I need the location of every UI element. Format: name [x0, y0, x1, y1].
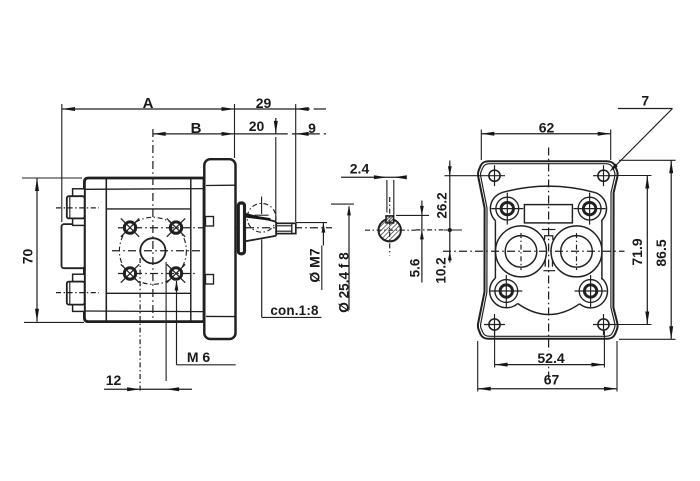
- dimension 26.2 and 10.2 line: [449, 161, 451, 263]
- pilot circle center tick: [255, 214, 269, 216]
- bolt lobe top-left: [490, 192, 502, 221]
- dimension 86.5 line: [670, 160, 672, 339]
- dimension A extension line left: [61, 104, 63, 222]
- key on section: [386, 216, 394, 223]
- section crosshair vertical: [389, 197, 391, 256]
- port bore right circle: [561, 236, 593, 268]
- flange upper bearing tab: [206, 217, 214, 227]
- dimension 70 extension bottom: [24, 321, 84, 323]
- dimension 7 leader: [612, 109, 673, 170]
- port offset centerline x140: [139, 258, 141, 392]
- body inner bottom line: [85, 310, 204, 313]
- inner square bottom line: [106, 292, 191, 294]
- dimension 26.2 extension line: [445, 175, 485, 177]
- bolt circle dash-dot: [119, 217, 186, 284]
- threaded shaft end M7: [276, 223, 296, 233]
- dimension 29 line: [235, 108, 296, 110]
- dimension 67 line: [478, 388, 617, 390]
- corner hole top-right: [598, 170, 609, 181]
- port boss right circle: [551, 226, 602, 277]
- svg-text:7: 7: [641, 93, 649, 109]
- dimension 52.4 label: [533, 351, 569, 364]
- flange plate outline: [478, 161, 618, 339]
- dimension 71.9 extension lines: [612, 175, 652, 177]
- lower boss inner face line: [69, 282, 71, 305]
- axis extension to flange dims: [416, 229, 444, 231]
- main vertical centerline side view: [152, 129, 154, 322]
- dimension 29 label: [252, 95, 276, 108]
- svg-text:5.6: 5.6: [408, 258, 423, 277]
- svg-text:con.1:8: con.1:8: [270, 303, 319, 318]
- dimension 5.6 extension key top: [396, 214, 429, 216]
- extension line thread start: [275, 137, 277, 221]
- center section right joint line: [190, 178, 192, 322]
- svg-text:62: 62: [539, 120, 555, 136]
- taper callout underline: [262, 316, 322, 318]
- svg-text:9: 9: [308, 120, 316, 136]
- flange plate inner chamfer line: [481, 164, 615, 337]
- flange lower bearing tab: [206, 275, 214, 285]
- central gear shaft circle: [140, 238, 165, 263]
- dimension 70 extension top: [22, 177, 82, 179]
- dimension A line: [62, 108, 235, 110]
- taper callout leader: [261, 240, 263, 318]
- bolt lobe top-right: [595, 193, 606, 221]
- corner hole top-left: [489, 170, 500, 181]
- left cover joint line: [105, 178, 107, 322]
- svg-text:29: 29: [256, 95, 272, 111]
- port bore left circle: [505, 236, 537, 268]
- svg-text:86.5: 86.5: [653, 239, 669, 266]
- tapered drive shaft: [245, 214, 277, 242]
- lower port boss: [67, 282, 85, 305]
- svg-text:52.4: 52.4: [537, 350, 564, 366]
- dimension 2.4 line: [341, 176, 404, 178]
- junction notch top: [545, 236, 553, 240]
- dimension 70 line: [36, 178, 38, 322]
- lower gear center tick: [543, 270, 555, 272]
- bolt hole side view upper-left: [124, 222, 135, 233]
- svg-text:67: 67: [544, 372, 560, 388]
- svg-text:M 6: M 6: [187, 349, 211, 365]
- flange bolt hole top-right: [578, 197, 601, 220]
- corner hole bottom-right: [598, 319, 609, 330]
- svg-text:Ø 25.4 f 8: Ø 25.4 f 8: [336, 252, 351, 313]
- dimension 62 label: [534, 120, 560, 133]
- upper port boss: [67, 196, 85, 218]
- dimension 20 end arrow down: [275, 118, 277, 134]
- svg-text:71.9: 71.9: [629, 238, 645, 265]
- svg-text:20: 20: [249, 118, 265, 134]
- shaft axis centerline: [118, 227, 332, 229]
- shaft diameter label leader: [348, 206, 350, 310]
- dimension 52.4 line: [495, 364, 605, 366]
- flange horizontal centerline: [443, 250, 625, 252]
- dimension B line: [153, 133, 235, 135]
- dimension 20 line: [235, 133, 276, 135]
- dimension 52.4 extension lines: [494, 331, 496, 368]
- dimension 71.9 line: [646, 176, 648, 325]
- extension line shaft end: [295, 104, 297, 222]
- seal housing on shaft: [238, 203, 244, 254]
- body inner top line: [85, 188, 204, 191]
- flange bolt hole bottom-right: [579, 280, 602, 303]
- dimension 67 extension lines: [477, 341, 479, 392]
- upper port boss centerline: [56, 207, 99, 209]
- pilot circle dash-dot on shaft: [247, 203, 276, 232]
- lower port boss step top: [73, 274, 85, 281]
- housing right tangent lines: [601, 220, 603, 279]
- svg-text:10.2: 10.2: [434, 257, 449, 283]
- right port vertical tick: [576, 233, 578, 270]
- svg-text:2.4: 2.4: [350, 161, 370, 177]
- dimension 62 line: [481, 133, 610, 135]
- section crosshair horizontal: [365, 229, 416, 231]
- section location line through pilot circle: [261, 197, 263, 215]
- flange chamfer projection line top: [206, 184, 235, 186]
- upper port boss step top: [73, 189, 85, 196]
- lower port boss step bottom: [73, 305, 85, 312]
- corner hole bottom-left: [489, 319, 500, 330]
- bolt lobe bottom-right: [580, 278, 608, 308]
- dimension A label: [138, 95, 158, 108]
- dimension 12 extension right: [165, 262, 167, 381]
- dimension 62 extension lines: [480, 130, 482, 161]
- mounting flange plate side view: [204, 159, 235, 339]
- dimension 2.4 extension lines: [386, 180, 388, 213]
- body rear face line: [203, 178, 205, 322]
- flange chamfer projection line bottom: [206, 315, 235, 317]
- bolt lobe bottom-left: [490, 278, 518, 308]
- upper boss inner face line: [69, 196, 71, 218]
- flange bolt hole bottom-left: [495, 280, 518, 303]
- left port vertical tick: [520, 233, 522, 270]
- thread callout M6 underline: [177, 364, 236, 366]
- side view pump body: [84, 178, 203, 322]
- lower port boss centerline: [56, 292, 99, 294]
- housing top arc: [502, 186, 595, 192]
- flange bolt hole top-left: [496, 197, 519, 220]
- body horizontal centerline: [112, 250, 218, 252]
- bolt hole side view upper-right: [170, 222, 181, 233]
- name plate rectangle: [524, 205, 572, 223]
- shaft thread label leader: [322, 223, 324, 246]
- left middle port block: [62, 224, 85, 268]
- dimension B label: [187, 120, 205, 133]
- bolt hole side view lower-left: [124, 268, 135, 279]
- extension line flange face: [234, 104, 236, 158]
- dimension 9 label: [305, 120, 319, 133]
- thread top extension line: [296, 222, 327, 224]
- svg-text:Ø M7: Ø M7: [307, 248, 323, 282]
- svg-text:26.2: 26.2: [435, 192, 450, 218]
- port boss left circle: [496, 226, 547, 277]
- pilot center extension line: [444, 229, 463, 231]
- shaft thread label underline: [321, 246, 323, 291]
- svg-text:70: 70: [20, 249, 36, 265]
- upper port boss step bottom: [73, 218, 85, 225]
- housing bottom arc: [518, 304, 580, 315]
- dimension 86.5 extension lines: [619, 159, 676, 161]
- bolt hole side view lower-right: [170, 268, 181, 279]
- pilot top extension line: [331, 203, 354, 205]
- housing left tangent lines: [494, 221, 496, 278]
- junction notch bottom: [545, 260, 552, 267]
- thread callout M6 leader: [176, 281, 178, 365]
- svg-text:12: 12: [106, 372, 122, 388]
- inner square top line: [106, 208, 191, 210]
- dimension 7 underline: [618, 108, 673, 110]
- lower bolt centerline: [118, 273, 196, 275]
- dimension 9 line: [276, 133, 326, 135]
- shaft keyway slot dark: [246, 214, 271, 220]
- dimension 12 line: [104, 388, 192, 390]
- pilot center cross tick: [542, 229, 556, 231]
- flange vertical centerline: [548, 148, 550, 380]
- svg-text:A: A: [143, 95, 154, 112]
- dimension 5.6 line: [421, 201, 423, 283]
- svg-text:B: B: [191, 120, 202, 137]
